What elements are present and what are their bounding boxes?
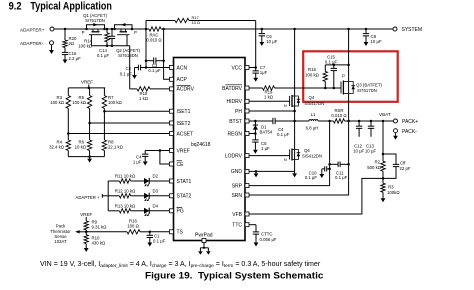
svg-text:VFB: VFB: [232, 212, 242, 218]
svg-text:PH: PH: [235, 109, 242, 115]
svg-text:0.010 Ω: 0.010 Ω: [146, 38, 162, 43]
svg-text:1μF: 1μF: [260, 70, 268, 75]
svg-text:Q6: Q6: [304, 148, 310, 153]
svg-text:0.1 μF: 0.1 μF: [153, 239, 166, 244]
svg-text:bq24618: bq24618: [191, 142, 211, 148]
svg-text:0.1 μF: 0.1 μF: [97, 53, 110, 58]
svg-text:ADAPTER-: ADAPTER-: [20, 41, 44, 46]
svg-text:SI7617DN: SI7617DN: [357, 88, 377, 93]
svg-text:100 kΩ: 100 kΩ: [72, 100, 87, 105]
svg-text:D2: D2: [153, 174, 159, 179]
svg-text:C2: C2: [126, 66, 132, 71]
svg-text:100 kΩ: 100 kΩ: [108, 100, 123, 105]
svg-text:10 μF: 10 μF: [353, 149, 364, 154]
svg-text:TTC: TTC: [232, 223, 242, 229]
svg-text:10 Ω: 10 Ω: [192, 20, 201, 25]
svg-text:N: N: [284, 157, 287, 162]
svg-text:100 Ω: 100 Ω: [127, 224, 139, 229]
svg-text:10 kΩ: 10 kΩ: [75, 145, 87, 150]
svg-text:P: P: [134, 30, 137, 35]
svg-text:PwrPad: PwrPad: [195, 233, 213, 239]
svg-text:R11 10 kΩ: R11 10 kΩ: [115, 174, 136, 179]
svg-text:100 kΩ: 100 kΩ: [78, 44, 93, 49]
svg-text:10 μF: 10 μF: [365, 149, 376, 154]
svg-text:Cff: Cff: [400, 161, 406, 166]
svg-text:Thermistor: Thermistor: [50, 229, 71, 234]
svg-text:ACSET: ACSET: [177, 131, 194, 137]
svg-text:22.1 kΩ: 22.1 kΩ: [108, 145, 124, 150]
svg-text:VIN = 19 V, 3-cell, Iadapter_l: VIN = 19 V, 3-cell, Iadapter_limit = 4 A…: [40, 261, 321, 269]
svg-text:0.1 μF: 0.1 μF: [325, 60, 338, 65]
svg-text:BTST: BTST: [229, 119, 242, 125]
svg-text:STAT2: STAT2: [177, 194, 192, 200]
svg-text:1 μF: 1 μF: [133, 160, 142, 165]
svg-text:32.4 kΩ: 32.4 kΩ: [49, 145, 65, 150]
svg-text:C13: C13: [366, 143, 374, 148]
svg-text:ADAPTER+: ADAPTER+: [20, 27, 45, 32]
svg-text:REGN: REGN: [228, 131, 243, 137]
svg-text:ADAPTER +: ADAPTER +: [76, 195, 100, 200]
svg-text:SI5417DN: SI5417DN: [305, 101, 325, 106]
svg-text:10 μF: 10 μF: [371, 39, 382, 44]
svg-text:2Ω: 2Ω: [69, 41, 75, 46]
svg-text:2.2 μF: 2.2 μF: [69, 56, 82, 61]
svg-text:6.8 μH: 6.8 μH: [306, 125, 319, 130]
svg-text:Q3 (BATFET): Q3 (BATFET): [356, 83, 383, 88]
svg-text:9.2: 9.2: [9, 0, 22, 12]
svg-text:LODRV: LODRV: [225, 153, 243, 159]
svg-text:CE: CE: [177, 162, 185, 168]
svg-text:R3: R3: [388, 185, 394, 190]
svg-text:0.1 μF: 0.1 μF: [120, 72, 133, 77]
svg-text:SRP: SRP: [232, 183, 243, 189]
svg-text:SYSTEM: SYSTEM: [402, 27, 423, 33]
svg-text:TS: TS: [177, 230, 184, 236]
svg-text:ACN: ACN: [177, 65, 188, 71]
svg-text:0.1 μF: 0.1 μF: [305, 175, 318, 180]
svg-text:CTTC: CTTC: [261, 232, 272, 237]
svg-text:L1: L1: [311, 112, 316, 117]
svg-text:0.056 μF: 0.056 μF: [260, 237, 277, 242]
svg-text:Typical Application: Typical Application: [30, 0, 112, 12]
svg-text:VREF: VREF: [80, 212, 92, 217]
svg-text:1 kΩ: 1 kΩ: [264, 95, 274, 100]
svg-text:100 kΩ: 100 kΩ: [305, 73, 320, 78]
svg-text:VREF: VREF: [81, 80, 93, 85]
svg-text:VBAT: VBAT: [379, 112, 391, 117]
svg-text:STAT1: STAT1: [177, 179, 192, 185]
svg-text:D4: D4: [153, 204, 159, 209]
svg-text:1 kΩ: 1 kΩ: [139, 96, 149, 101]
svg-text:0.1 μF: 0.1 μF: [335, 175, 348, 180]
svg-text:100kΩ: 100kΩ: [387, 190, 400, 195]
svg-text:BATDRV: BATDRV: [222, 86, 242, 92]
svg-text:Pack: Pack: [56, 224, 66, 229]
svg-text:VCC: VCC: [231, 65, 242, 71]
svg-text:N: N: [284, 103, 287, 108]
svg-text:SI7618DN: SI7618DN: [118, 53, 138, 58]
svg-text:SRN: SRN: [231, 193, 242, 199]
svg-text:0.1 μF: 0.1 μF: [277, 132, 290, 137]
svg-text:Q4: Q4: [309, 95, 315, 100]
svg-text:9.31 kΩ: 9.31 kΩ: [92, 225, 108, 230]
svg-text:ACP: ACP: [177, 77, 188, 83]
svg-text:HIDRV: HIDRV: [227, 99, 243, 105]
svg-text:Figure 19. Typical System Sch: Figure 19. Typical System Schematic: [145, 271, 324, 282]
svg-text:PACK+: PACK+: [402, 119, 418, 125]
svg-text:PG: PG: [177, 209, 184, 215]
svg-text:GND: GND: [231, 169, 243, 175]
svg-text:C12: C12: [354, 143, 362, 148]
svg-text:1 μF: 1 μF: [261, 146, 270, 151]
svg-text:PACK-: PACK-: [402, 129, 417, 135]
svg-text:P: P: [342, 74, 345, 79]
svg-text:BAT54: BAT54: [260, 129, 273, 134]
svg-text:SiS412DN: SiS412DN: [302, 154, 322, 159]
svg-text:103AT: 103AT: [54, 239, 67, 244]
svg-text:R2: R2: [375, 160, 381, 165]
svg-text:R12 10 kΩ: R12 10 kΩ: [115, 189, 136, 194]
svg-text:P: P: [82, 30, 85, 35]
svg-text:430 kΩ: 430 kΩ: [92, 241, 107, 246]
svg-text:0.1 μF: 0.1 μF: [148, 68, 161, 73]
svg-text:SI7617DN: SI7617DN: [85, 18, 105, 23]
svg-text:ISET1: ISET1: [177, 109, 191, 115]
svg-text:R15: R15: [308, 67, 316, 72]
svg-text:500 kΩ: 500 kΩ: [367, 165, 382, 170]
svg-text:10 μF: 10 μF: [266, 39, 277, 44]
svg-text:100 kΩ: 100 kΩ: [50, 100, 65, 105]
svg-text:R13 10 kΩ: R13 10 kΩ: [115, 204, 136, 209]
svg-text:ISET2: ISET2: [177, 121, 191, 127]
svg-text:22 pF: 22 pF: [400, 166, 411, 171]
svg-text:0.010 Ω: 0.010 Ω: [331, 113, 347, 118]
svg-text:D3: D3: [153, 189, 159, 194]
svg-text:ACDRV: ACDRV: [177, 87, 195, 93]
svg-text:VREF: VREF: [177, 148, 190, 154]
